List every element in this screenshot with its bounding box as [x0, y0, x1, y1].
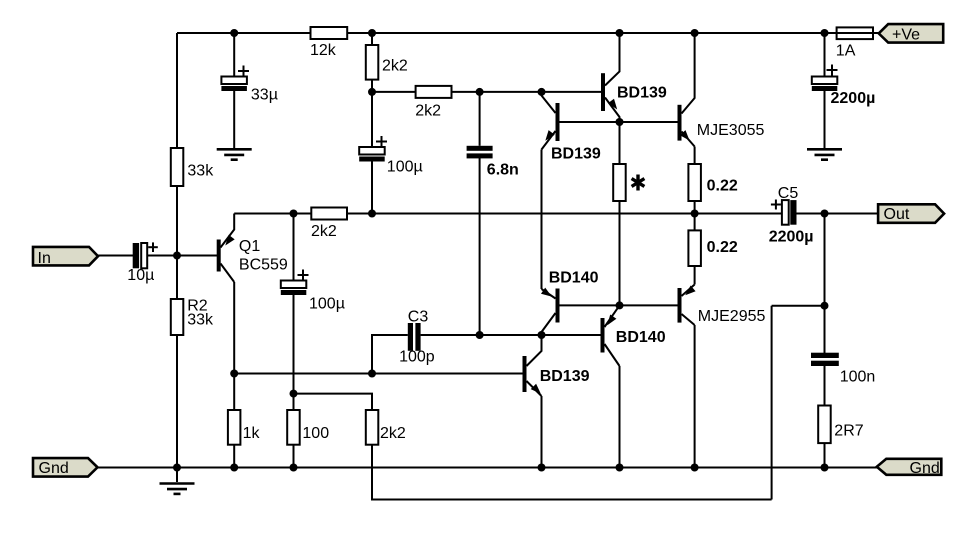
transistor BD140-1 bar [556, 289, 560, 323]
wire 2k2a top lead [371, 33, 373, 147]
junction dot 28 [821, 464, 829, 472]
junction dot 13 [691, 210, 699, 218]
wire left vertical rail [176, 33, 178, 468]
transistor MJE2955 emitter [682, 285, 695, 297]
svg-text:BD139: BD139 [551, 146, 601, 163]
transistor BD140-2 bar [601, 318, 605, 353]
capacitor 6.8n [467, 146, 493, 151]
svg-text:C5: C5 [778, 185, 799, 202]
wire divider link y305 [772, 305, 825, 307]
svg-text:1A: 1A [836, 42, 856, 59]
junction dot 3 [616, 29, 624, 37]
svg-text:Q1: Q1 [239, 238, 260, 255]
junction dot 27 [691, 464, 699, 472]
capacitor 33u [221, 77, 247, 85]
transistor BD139-1 emitter [605, 98, 620, 123]
transistor Q1 emitter [221, 214, 235, 248]
junction dot 4 [691, 29, 699, 37]
junction dot 2 [368, 29, 376, 37]
svg-text:100: 100 [302, 425, 329, 442]
plus sign 2200u supply [827, 69, 838, 71]
svg-text:0.22: 0.22 [707, 178, 738, 195]
svg-text:33k: 33k [187, 311, 214, 328]
transistor BD139-3 emitter [527, 381, 542, 396]
wire top +Ve rail [177, 32, 879, 34]
svg-text:33k: 33k [187, 163, 214, 180]
wire base rail y92 [372, 91, 601, 93]
junction dot 12 [368, 210, 376, 218]
wire 0.22a bottom lead [694, 201, 696, 214]
junction dot 7 [476, 88, 484, 96]
svg-text:12k: 12k [310, 42, 337, 59]
wire 2200u bottom lead [824, 91, 826, 149]
svg-text:2k2: 2k2 [382, 58, 408, 75]
transistor BD139-2 collector [542, 92, 556, 113]
resistor 2R7 [818, 406, 831, 444]
plus sign C5 [771, 204, 781, 206]
transistor Q1 collector [221, 264, 235, 283]
connector Gnd left [33, 458, 98, 477]
junction dot 19 [230, 370, 238, 378]
wire vas emitter riser [541, 150, 543, 290]
resistor 2k2 b (horizontal) [416, 86, 452, 98]
capacitor 2200u supply [812, 77, 838, 85]
junction dot 17 [476, 331, 484, 339]
wire 2k2 feedback lead [371, 445, 373, 501]
svg-text:+Ve: +Ve [892, 26, 920, 43]
svg-text:10µ: 10µ [127, 267, 154, 284]
wire output base rail y305 [560, 304, 678, 306]
junction dot 15 [616, 301, 624, 309]
junction dot 23 [230, 464, 238, 472]
junction dot 26 [616, 464, 624, 472]
junction dot 9 [616, 118, 624, 126]
junction dot 20 [368, 370, 376, 378]
junction dot 6 [368, 88, 376, 96]
junction dot 11 [290, 210, 298, 218]
svg-text:C3: C3 [408, 308, 429, 325]
svg-text:2k2: 2k2 [380, 425, 406, 442]
resistor 2k2 a (vertical top) [366, 45, 379, 80]
svg-text:2200µ: 2200µ [769, 229, 814, 246]
capacitor 100u a [359, 147, 385, 155]
ground supply cap [807, 148, 842, 151]
transistor MJE3055 bar [678, 105, 682, 141]
svg-text:2k2: 2k2 [311, 223, 337, 240]
svg-text:2200µ: 2200µ [831, 90, 876, 107]
svg-text:33µ: 33µ [251, 87, 278, 104]
resistor 0.22 a [688, 164, 701, 201]
resistor 12k [311, 27, 348, 39]
ground 33u [217, 148, 252, 151]
transistor BD139-2 emitter [542, 131, 556, 150]
wire 0.22b bottom lead [694, 266, 696, 285]
transistor BD139-3 collector [527, 335, 542, 366]
wire zobel mid lead [824, 366, 826, 406]
svg-text:Out: Out [884, 206, 910, 223]
transistor MJE2955 emitter arrow [685, 286, 695, 296]
transistor Q1 BC559 bar [217, 240, 221, 272]
resistor 2k2 d (feedback) [366, 410, 379, 445]
junction dot 16 [821, 302, 829, 310]
junction dot 21 [290, 390, 298, 398]
junction dot 18 [538, 331, 546, 339]
transistor MJE2955 collector [682, 314, 695, 325]
resistor 1k [228, 410, 241, 445]
wire 100ub top lead [293, 214, 295, 282]
connector Gnd right [877, 459, 942, 475]
svg-text:BC559: BC559 [239, 257, 288, 274]
svg-text:MJE2955: MJE2955 [698, 308, 766, 325]
transistor BD140-1 collector [542, 313, 556, 335]
transistor BD139-3 bar [523, 356, 527, 392]
connector +Ve [879, 24, 944, 42]
plus sign 100u b [298, 274, 309, 276]
wire 2200u top lead [824, 33, 826, 77]
transistor Q1 emitter arrow [225, 235, 234, 246]
junction dot 8 [538, 88, 546, 96]
wire C3 right lead [421, 334, 601, 336]
transistor BD140-1 emitter arrow [541, 288, 552, 297]
fuse 1A [837, 27, 873, 39]
capacitor C5 2200u [782, 200, 789, 225]
wire 33u branch lower [233, 90, 235, 149]
wire MJE3055 emitter lead [694, 147, 696, 165]
wire 6.8n bottom lead [479, 158, 481, 335]
resistor bias * [613, 164, 626, 201]
svg-text:6.8n: 6.8n [487, 162, 519, 179]
transistor BD139-2 bar [556, 103, 560, 141]
resistor 0.22 b [688, 230, 701, 266]
wire feedback bottom run [372, 499, 772, 501]
svg-text:BD139: BD139 [617, 84, 667, 101]
wire 0.22b top lead [694, 214, 696, 231]
svg-text:BD139: BD139 [540, 368, 590, 385]
transistor MJE3055 emitter [682, 132, 695, 147]
wire mid rail left [234, 213, 782, 215]
wire 6.8n top lead [479, 92, 481, 146]
transistor BD139-3 emitter arrow [531, 384, 541, 394]
capacitor 10u [133, 243, 139, 268]
transistor BD139-1 collector [605, 33, 620, 86]
wire bias to vas node [619, 201, 621, 305]
wire BD140b collector riser [619, 366, 621, 468]
plus sign 33u [238, 70, 249, 72]
wire mid rail right [796, 213, 878, 215]
svg-text:1k: 1k [243, 425, 261, 442]
connector In [33, 247, 98, 266]
svg-text:BD140: BD140 [549, 269, 599, 286]
svg-text:0.22: 0.22 [707, 239, 738, 256]
svg-text:MJE3055: MJE3055 [697, 122, 765, 139]
svg-text:In: In [38, 250, 51, 267]
transistor MJE2955 bar [678, 288, 682, 323]
svg-text:Gnd: Gnd [39, 460, 69, 477]
junction dot 14 [821, 210, 829, 218]
svg-text:100µ: 100µ [387, 158, 423, 175]
svg-text:100n: 100n [840, 369, 876, 386]
resistor 2k2 c (mid horizontal) [311, 208, 347, 220]
svg-text:BD140: BD140 [616, 329, 666, 346]
transistor BD140-1 emitter [542, 289, 556, 299]
wire y393 link [294, 394, 373, 410]
svg-text:100p: 100p [399, 349, 435, 366]
transistor BD139-1 emitter arrow [608, 99, 617, 110]
capacitor 100n [811, 353, 839, 358]
wire Q1 collector riser [233, 282, 235, 374]
wire feedback riser [771, 306, 773, 500]
resistor 100 [287, 410, 300, 445]
junction dot 24 [290, 464, 298, 472]
wire MJE2955 collector riser [694, 325, 696, 468]
transistor MJE3055 collector [682, 33, 695, 114]
svg-text:2R7: 2R7 [834, 423, 863, 440]
wire 100 resistor bottom lead [293, 445, 295, 468]
wire 1k branch [233, 374, 235, 468]
wire BD139c emitter riser [541, 396, 543, 468]
resistor 33k upper [171, 148, 184, 186]
wire 33u branch upper [233, 33, 235, 77]
label * asterisk [636, 175, 639, 191]
svg-text:Gnd: Gnd [910, 460, 940, 477]
junction dot 22 [173, 464, 181, 472]
ground input rail [176, 468, 178, 483]
transistor MJE3055 emitter arrow [680, 130, 690, 140]
wire lower base rail y373 [234, 373, 522, 375]
wire 100ub bottom lead [293, 295, 295, 411]
junction dot 5 [821, 29, 829, 37]
transistor BD139-2 emitter arrow [545, 130, 554, 141]
wire C3 left lead [372, 335, 408, 374]
transistor BD140-2 emitter [605, 305, 620, 327]
svg-text:100µ: 100µ [309, 296, 345, 313]
plus sign 10u [148, 246, 158, 248]
capacitor 100u b [281, 281, 307, 289]
wire bottom ground rail [98, 467, 877, 469]
wire 2R7 bottom lead [824, 443, 826, 467]
transistor BD139-1 bar [601, 73, 605, 111]
connector Out [878, 204, 944, 223]
wire input line [98, 255, 133, 257]
wire bias resistor riser [619, 122, 621, 164]
wire 100ua lower lead [371, 161, 373, 214]
wire driver base rail y122 [560, 121, 678, 123]
capacitor C3 100p [408, 323, 413, 351]
junction dot 1 [230, 29, 238, 37]
svg-text:2k2: 2k2 [415, 103, 441, 120]
wire out node riser [824, 214, 826, 354]
junction dot 10 [173, 252, 181, 260]
resistor R2 33k [171, 299, 184, 335]
junction dot 25 [538, 464, 546, 472]
wire input to Q1 base [147, 255, 217, 257]
plus sign 100u a [376, 141, 387, 143]
transistor BD140-2 collector [605, 344, 620, 366]
transistor BD140-2 emitter arrow [607, 315, 616, 326]
